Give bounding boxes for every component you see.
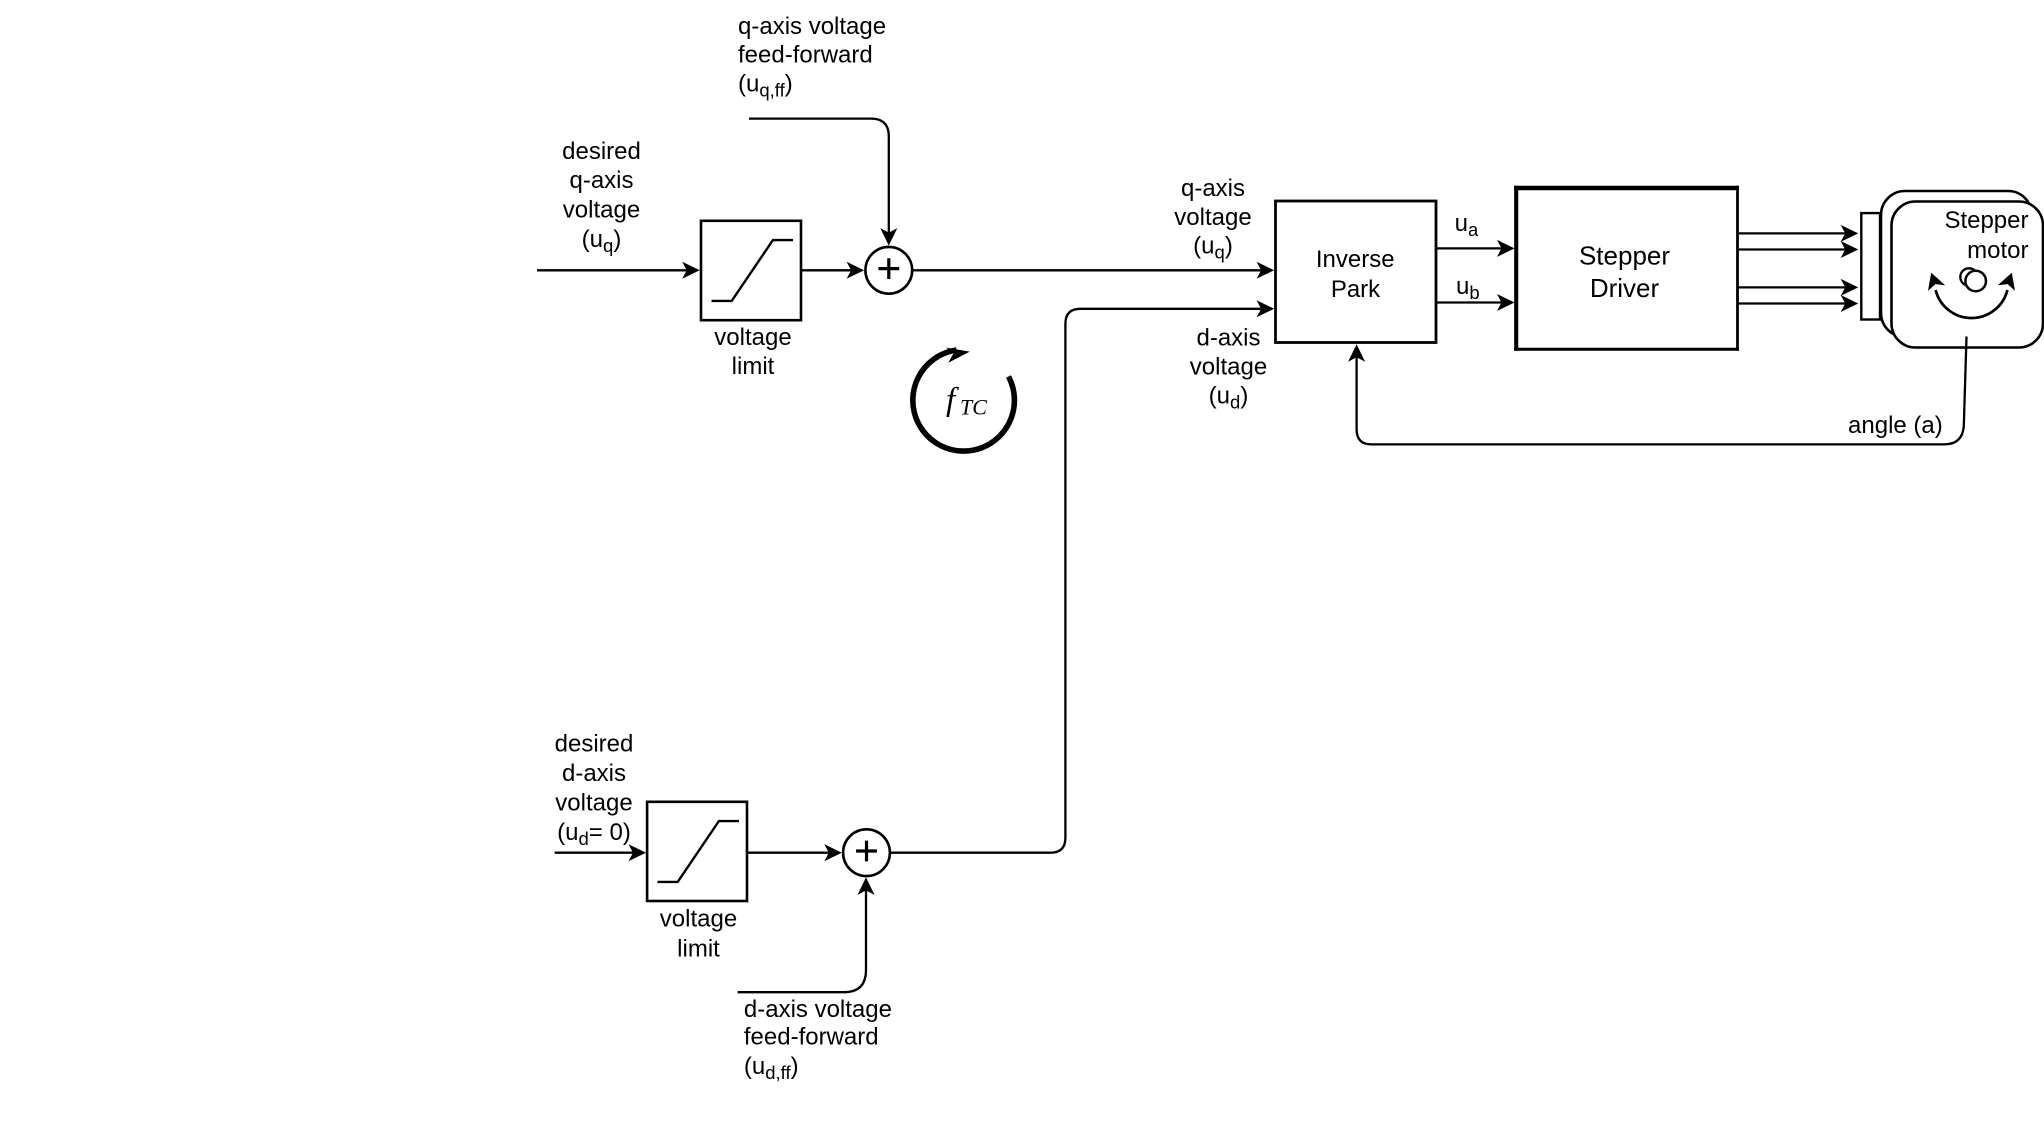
- node label: desired q-axis voltage (uq): [562, 138, 641, 256]
- svg-text:(ud): (ud): [1209, 382, 1249, 412]
- wire: q feed-forward into summer S1: [749, 119, 889, 233]
- svg-text:d-axis: d-axis: [562, 760, 626, 787]
- block: Stepper Driver U2: [1514, 186, 1739, 351]
- summing junction S1: [865, 247, 912, 294]
- motor label: Stepper motor: [1944, 207, 2028, 264]
- wire: d feed-forward into summer S2: [738, 890, 866, 992]
- wire: ub from Inverse Park to Stepper Driver: [1436, 301, 1502, 303]
- svg-text:Inverse: Inverse: [1316, 246, 1395, 273]
- saturation curve in VL1: [712, 240, 794, 301]
- motor front housing: [1892, 202, 2044, 348]
- node label: d-axis voltage (ud) at Inverse Park: [1190, 325, 1267, 413]
- svg-text:d-axis voltage: d-axis voltage: [744, 996, 892, 1023]
- node label: desired d-axis voltage (ud = 0): [555, 731, 634, 849]
- svg-text:q-axis: q-axis: [569, 167, 633, 194]
- svg-text:voltage: voltage: [660, 906, 737, 933]
- saturation curve in VL2: [658, 821, 740, 882]
- wire: VL1 output into summer S1: [802, 269, 851, 271]
- fTC rotation symbol: [913, 348, 1015, 451]
- svg-text:ub: ub: [1456, 273, 1480, 303]
- wires: 4 phase lines Stepper Driver to motor terminals: [1739, 232, 1846, 234]
- svg-text:voltage: voltage: [555, 789, 632, 816]
- node label: d-axis voltage feed-forward (ud,ff): [744, 996, 892, 1083]
- svg-text:motor: motor: [1967, 237, 2028, 264]
- motor rotation arc with arrows: [1936, 290, 2008, 318]
- voltage limit VL1 box: [701, 221, 801, 320]
- svg-text:TC: TC: [960, 395, 987, 420]
- svg-text:voltage: voltage: [1190, 354, 1267, 381]
- svg-text:voltage: voltage: [1174, 204, 1251, 231]
- svg-text:q-axis: q-axis: [1181, 175, 1245, 202]
- svg-text:f: f: [946, 382, 959, 418]
- svg-text:limit: limit: [732, 353, 775, 380]
- wire: S1 output to Inverse Park q input: [912, 269, 1261, 271]
- summing junction S2: [843, 829, 890, 876]
- svg-text:d-axis: d-axis: [1196, 325, 1260, 352]
- svg-text:Stepper: Stepper: [1944, 207, 2028, 234]
- label: voltage limit (VL2): [660, 906, 737, 963]
- svg-text:voltage: voltage: [563, 197, 640, 224]
- svg-text:(uq,ff): (uq,ff): [738, 70, 793, 100]
- label: voltage limit (VL1): [714, 324, 791, 380]
- svg-text:(ud= 0): (ud= 0): [557, 819, 631, 849]
- wire: S2 output up to Inverse Park d input: [890, 309, 1261, 853]
- svg-text:ua: ua: [1455, 210, 1479, 240]
- motor back housing: [1881, 191, 2032, 337]
- node label: q-axis voltage (uq) at Inverse Park: [1174, 175, 1251, 263]
- svg-text:(uq): (uq): [582, 226, 622, 256]
- wire: q input into voltage limit: [537, 269, 687, 271]
- svg-text:(ud,ff): (ud,ff): [744, 1053, 799, 1083]
- svg-text:angle (a): angle (a): [1848, 412, 1943, 439]
- block: Inverse Park U1: [1276, 201, 1437, 343]
- motor shaft circles: [1960, 268, 1977, 285]
- svg-text:(uq): (uq): [1193, 233, 1233, 263]
- wire: angle (a) feedback from motor to Inverse Park: [1357, 337, 1967, 445]
- svg-text:feed-forward: feed-forward: [744, 1024, 879, 1051]
- svg-text:limit: limit: [677, 935, 720, 962]
- svg-text:Driver: Driver: [1590, 273, 1660, 303]
- svg-text:voltage: voltage: [714, 324, 791, 351]
- wire: VL2 output into summer S2: [747, 852, 829, 854]
- wire: ua from Inverse Park to Stepper Driver: [1436, 247, 1502, 249]
- svg-text:q-axis voltage: q-axis voltage: [738, 13, 886, 40]
- wire: d input into voltage limit VL2: [555, 852, 633, 854]
- svg-text:desired: desired: [562, 138, 641, 165]
- svg-text:desired: desired: [555, 731, 634, 758]
- svg-text:feed-forward: feed-forward: [738, 42, 873, 69]
- svg-text:Park: Park: [1331, 276, 1381, 303]
- voltage limit VL2 box: [647, 802, 747, 901]
- svg-text:Stepper: Stepper: [1579, 241, 1670, 271]
- motor terminal block: [1861, 213, 1880, 319]
- node label: q-axis voltage feed-forward (uq,ff): [738, 13, 886, 101]
